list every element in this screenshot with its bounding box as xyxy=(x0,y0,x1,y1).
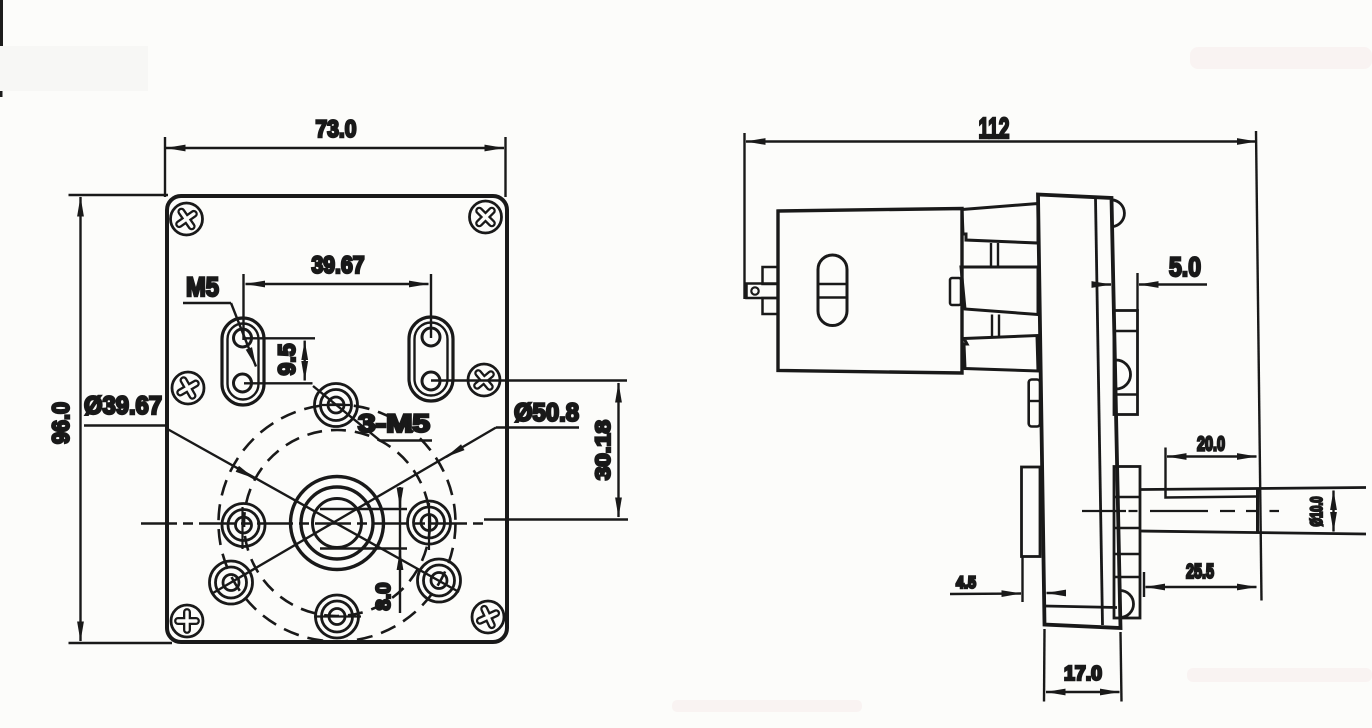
corner screw bottom-left xyxy=(171,605,203,637)
svg-text:5.0: 5.0 xyxy=(1169,252,1201,282)
upper right boss xyxy=(1114,311,1138,415)
dim 73.0 xyxy=(165,137,506,197)
dim 8.0 xyxy=(320,487,407,613)
gearbox inner bottom line xyxy=(1045,606,1117,608)
shaft end xyxy=(1256,489,1259,533)
svg-text:112: 112 xyxy=(979,113,1010,145)
screw mid-right xyxy=(468,364,500,396)
svg-text:3-M5: 3-M5 xyxy=(358,410,430,438)
shaft centerline xyxy=(1082,510,1279,512)
output shaft top line xyxy=(1140,488,1366,490)
svg-text:20.0: 20.0 xyxy=(1197,434,1225,456)
mounting plate outline xyxy=(167,196,507,642)
hole lower-left (on D50.8) xyxy=(210,561,253,604)
svg-text:39.67: 39.67 xyxy=(312,252,365,279)
svg-text:25.5: 25.5 xyxy=(1186,561,1214,583)
hole top (3-M5 on D50.8) xyxy=(315,384,358,427)
dashed bolt circle D39.67 xyxy=(244,430,430,616)
svg-text:73.0: 73.0 xyxy=(316,116,357,143)
scan edge artifact xyxy=(0,0,3,97)
corner screw top-left xyxy=(171,203,203,235)
svg-text:Ø39.67: Ø39.67 xyxy=(84,392,162,420)
gearbox parting line xyxy=(1096,198,1103,625)
left slot (obround) xyxy=(222,318,264,405)
dim 30.18 xyxy=(431,381,628,520)
dim 4.5 xyxy=(950,557,1065,602)
gearbox housing xyxy=(1038,195,1121,629)
motor body xyxy=(778,209,962,374)
dim 20.0 xyxy=(1166,448,1257,491)
svg-text:30.18: 30.18 xyxy=(592,420,615,480)
hole bottom (on D39.67) xyxy=(314,595,361,638)
motor capsule window xyxy=(818,255,847,326)
gearbox top-right bump xyxy=(1112,200,1125,227)
right slot (obround) xyxy=(409,317,453,401)
corner screw top-right xyxy=(470,201,502,233)
svg-text:9.5: 9.5 xyxy=(274,344,301,376)
screw mid-left xyxy=(172,372,204,404)
stud rod lower xyxy=(992,315,999,339)
center boss circles xyxy=(291,477,384,570)
hole left (on D39.67) xyxy=(222,504,265,550)
horizontal centerline xyxy=(141,522,489,524)
dim 96.0 xyxy=(69,195,173,643)
dim 39.67 xyxy=(244,274,432,340)
mounting bracket middle xyxy=(961,267,1038,315)
dim 5.0 xyxy=(1092,273,1207,311)
dim 17.0 xyxy=(1044,629,1122,702)
mounting bracket top xyxy=(962,204,1038,244)
terminal block upper xyxy=(763,267,779,284)
svg-text:4.5: 4.5 xyxy=(956,573,976,592)
terminal spade pin xyxy=(747,284,779,299)
hole lower-right (on D50.8) xyxy=(418,559,461,602)
stud rod upper xyxy=(991,243,998,267)
svg-text:Ø50.8: Ø50.8 xyxy=(514,399,579,427)
dim D10.0 xyxy=(1332,491,1334,532)
scan smudges xyxy=(0,46,148,91)
terminal block lower xyxy=(763,298,779,314)
bracket middle left tab xyxy=(950,278,961,305)
gearbox left lower bracket xyxy=(1022,467,1041,557)
dim 9.5 xyxy=(243,338,316,383)
lower right boss xyxy=(1114,467,1140,619)
mounting bracket bottom xyxy=(964,336,1038,372)
dim 112 xyxy=(745,131,1262,601)
svg-text:M5: M5 xyxy=(186,272,219,302)
svg-text:96.0: 96.0 xyxy=(48,402,75,444)
svg-text:17.0: 17.0 xyxy=(1064,663,1102,685)
lower boss screw head arc xyxy=(1120,591,1134,618)
dim 25.5 xyxy=(1144,572,1257,597)
output shaft bottom line xyxy=(1140,531,1366,534)
hole right (on D39.67) xyxy=(408,501,451,550)
gearbox left tab xyxy=(1029,380,1040,427)
svg-text:8.0: 8.0 xyxy=(373,583,395,611)
dashed bolt circle D50.8 xyxy=(219,405,456,642)
shaft D-flat xyxy=(1166,489,1258,498)
svg-text:Ø10.0: Ø10.0 xyxy=(1307,497,1326,527)
upper boss screw head arc xyxy=(1116,360,1131,389)
corner screw bottom-right xyxy=(472,601,504,633)
